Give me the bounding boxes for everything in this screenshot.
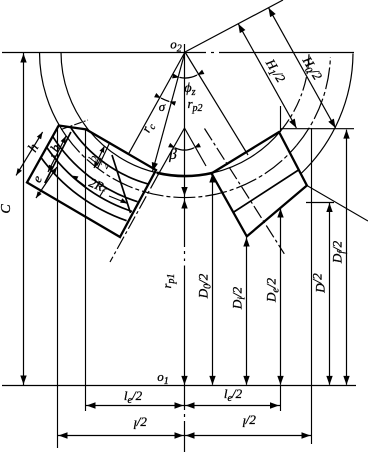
wire: l_e/2 left extension line [85, 130, 87, 411]
wire: line from o2 at 29 deg left to tooth band edge [128, 52, 185, 155]
angle phi_z arc [180, 75, 198, 78]
wire: right groove dash-dot axis through slab [205, 129, 285, 254]
wire: right slab internal flank line [233, 170, 299, 213]
dimension b line with arrows [48, 136, 66, 172]
dimension l_e/2 left [86, 405, 185, 407]
wire: line from o2 up-right at 28 deg [185, 0, 283, 52]
angle sigma arc [161, 98, 169, 101]
wire: right groove axis solid near V [185, 128, 207, 166]
arc: pitch circle left solid part [39, 52, 65, 136]
wire: b/2 cell boundary line [98, 142, 111, 169]
dimension r_p1 arrow down at worm axis [181, 376, 187, 385]
wire: De/2 extension below axis (l_e/2 right extension) [280, 385, 282, 411]
arc: left band internal arc R178.5 (thick) [40, 157, 126, 221]
dimension H1/2 line with arrows [238, 24, 296, 128]
wire: l/2 right extension line [311, 128, 313, 444]
arc: left band internal arc R157 (thick) [52, 136, 137, 202]
wire: extension from right slab corner C down-right [307, 186, 368, 222]
dimension h line with arrows [16, 132, 42, 175]
dimension r_p1 arrow up to pitch arc [181, 200, 187, 209]
arc: pitch circle dash-dot middle part [66, 136, 297, 198]
wire: horizontal axis through o1 (worm axis) [2, 385, 356, 387]
dimension De/2 vertical line [280, 209, 282, 385]
svg-text:C: C [0, 204, 14, 214]
dimension D0/2 vertical line [212, 174, 214, 385]
wire: horizontal tip-level tick line at right [281, 128, 354, 130]
dimension l/2 left [58, 435, 185, 437]
dimension 2Rf line with arrows [71, 176, 85, 187]
dimension Di/2 vertical line [246, 238, 248, 385]
arc: worm tip circle (thick throat portion) [157, 173, 213, 176]
dimension r_p2 arrow down to pitch arc [181, 187, 187, 196]
wire: vertical centerline o2-o1 [184, 44, 186, 247]
dimension l/2 right [185, 435, 312, 437]
label b/2 stacked fraction (rotated) [84, 151, 113, 172]
arc: left band internal arc R137 (thick) [71, 128, 148, 184]
wire: extension line above right slab corner B [280, 106, 282, 132]
arc: pitch circle dash-dot right part [297, 57, 331, 145]
arc: right outer root arc (thin) [301, 54, 353, 174]
component: left tooth band outline (thick) [27, 126, 156, 238]
dimension Df/2 vertical line [346, 130, 348, 385]
dimension l_e/2 right [185, 405, 281, 407]
arc: worm tip circle (thin inside left tooth band) [89, 130, 157, 172]
dimension H0/2 line with arrows [269, 8, 336, 128]
wire: l/2 left extension line [57, 126, 59, 448]
arc: worm tip circle (dash-dot, right outer part) [281, 53, 309, 131]
dimension C vertical line with arrows [23, 53, 25, 386]
dimension b/2 line [94, 146, 105, 168]
wire: end-face tick at right [306, 202, 334, 204]
svg-text:σ: σ [159, 99, 166, 114]
arc: left band internal arc R168 (thick) [46, 147, 132, 212]
svg-text:β: β [168, 147, 177, 163]
wire: left groove axis solid near V then dash-dot [157, 128, 184, 176]
dimension D/2 vertical line [329, 203, 331, 385]
dimension r_c line from o2 with arrow at tip arc [153, 52, 186, 172]
wire: left band internal steep flank line [112, 155, 131, 213]
wire: left band internal cap line X2 [45, 132, 71, 183]
arc: worm tip circle (thin, left outer part) [61, 52, 89, 130]
wire: horizontal axis through o2 (top centerline) [2, 52, 206, 54]
component: right tooth slab outline (thick) [212, 132, 307, 236]
arc: worm tip circle (thin inside right tooth slab) [213, 131, 281, 173]
wire: short dash-dot tooth axis at top of band [61, 120, 88, 130]
wire: line from o2 at 29 deg right to tooth slab edge [185, 52, 248, 155]
dimension e line with arrows [36, 167, 57, 198]
angle beta arc at V [175, 148, 194, 150]
